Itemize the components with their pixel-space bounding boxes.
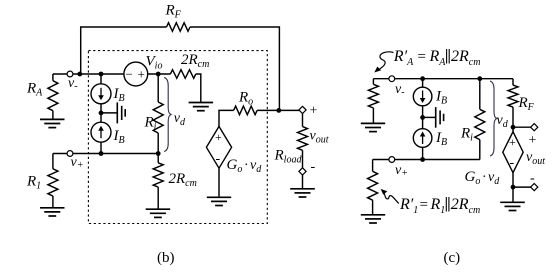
- svg-text:Go: Go: [465, 169, 481, 187]
- terminal vout- (b): [299, 168, 306, 175]
- svg-text:IB: IB: [435, 89, 447, 107]
- junction dot Ri branch (b): [156, 72, 161, 77]
- svg-text:Ro: Ro: [238, 90, 253, 108]
- wire between IB sources (c): [422, 106, 424, 129]
- ground at output (b): [290, 189, 315, 197]
- resistor RA: [48, 81, 58, 111]
- terminal vout+ (b): [299, 106, 306, 113]
- wire R1 to ground: [52, 196, 54, 208]
- svg-text:·: ·: [482, 170, 487, 185]
- terminal vout+ (c): [531, 124, 538, 131]
- svg-text:(c): (c): [444, 250, 461, 266]
- open node v- (b): [67, 71, 73, 77]
- junction dot IB branch (b): [99, 72, 104, 77]
- resistor R-prime-A: [368, 84, 378, 108]
- junction dot output+ (c): [511, 125, 516, 130]
- svg-text:+: +: [215, 130, 222, 144]
- junction dot 2Rcm lower (b): [156, 151, 161, 156]
- svg-text:R′A: R′A: [393, 48, 414, 68]
- wire RF to output node (c): [512, 107, 514, 132]
- svg-text:-: -: [530, 171, 535, 186]
- wire RA to ground: [52, 111, 54, 120]
- junction dot Ri branch (c): [477, 76, 482, 81]
- brace vd (c): [490, 81, 497, 156]
- wire to 2Rcm lower: [157, 154, 159, 163]
- svg-text:+: +: [509, 135, 516, 149]
- svg-text:=: =: [420, 197, 428, 213]
- wire R'A top lead: [372, 79, 374, 85]
- svg-text:IB: IB: [113, 86, 125, 104]
- wire Rload to terminal: [302, 150, 304, 168]
- svg-text:+: +: [529, 133, 537, 148]
- wire to IB upper (c): [422, 79, 424, 88]
- svg-text:vout: vout: [310, 129, 329, 146]
- svg-text:vd: vd: [174, 111, 186, 128]
- resistor R1: [48, 169, 58, 196]
- svg-text:RA: RA: [429, 48, 447, 68]
- terminal vout- (c): [531, 184, 538, 191]
- wire to terminal - (c): [513, 186, 534, 188]
- ground under R-prime-1: [361, 215, 385, 223]
- svg-text:R1: R1: [26, 174, 41, 192]
- svg-text:v+: v+: [395, 163, 408, 179]
- current source IB upper (b): [91, 84, 111, 104]
- svg-text:-: -: [510, 156, 515, 171]
- resistor Rload: [298, 127, 308, 151]
- open node v- (c): [389, 76, 395, 82]
- dependent source Go*vd (b): [206, 126, 231, 168]
- resistor RF (b): [167, 23, 191, 32]
- brace vd (b): [164, 78, 171, 152]
- svg-text:vout: vout: [526, 150, 545, 167]
- svg-text:Rload: Rload: [274, 148, 303, 166]
- svg-text:Ri: Ri: [460, 126, 473, 144]
- svg-text:IB: IB: [435, 130, 447, 148]
- svg-text:-: -: [311, 160, 316, 175]
- arrow from R-prime-1 label to resistor: [384, 193, 399, 204]
- wire to RF (c): [512, 79, 514, 85]
- wire R'1 to ground: [372, 200, 374, 214]
- svg-text:+: +: [138, 67, 145, 82]
- junction dot mid IB (b): [99, 111, 104, 116]
- svg-text:v+: v+: [71, 155, 84, 171]
- wire RA top lead: [52, 74, 54, 81]
- wire Go source to Ro: [219, 110, 234, 126]
- wire IB lower to v+ rail (b): [100, 142, 102, 153]
- svg-text:v-: v-: [395, 82, 405, 98]
- wire Ro to output node: [257, 109, 302, 111]
- junction dot IB branch (c): [420, 76, 425, 81]
- wire to terminal + (c): [513, 126, 534, 128]
- wire Ri to v+ rail (b): [157, 133, 159, 154]
- wire between IB sources (b): [100, 104, 102, 122]
- svg-text:(b): (b): [157, 250, 175, 266]
- svg-text:IB: IB: [113, 128, 125, 146]
- dotted boundary box of op-amp model (b): [88, 51, 267, 224]
- svg-text:Go: Go: [227, 157, 243, 175]
- svg-text:·: ·: [244, 158, 249, 173]
- ground under lower 2Rcm: [146, 209, 171, 217]
- wire R'1 top lead: [372, 160, 374, 172]
- wire R'A to ground: [372, 108, 374, 123]
- resistor Ri (b): [153, 102, 163, 133]
- svg-text:−: −: [126, 67, 133, 82]
- open node v+ (c): [389, 157, 395, 163]
- wire R1 top lead: [52, 154, 54, 169]
- ground under upper 2Rcm: [189, 103, 214, 111]
- junction dot output- (c): [511, 185, 516, 190]
- resistor R-prime-1: [368, 171, 378, 200]
- wire v+ rail (b): [53, 153, 158, 155]
- svg-text:RA: RA: [26, 81, 43, 99]
- current source IB upper (c): [413, 87, 432, 106]
- svg-text:2Rcm: 2Rcm: [451, 196, 480, 216]
- svg-text:vd: vd: [488, 170, 500, 187]
- svg-text:=: =: [418, 49, 426, 65]
- wire IB lower to v+ rail (c): [422, 147, 424, 159]
- junction dot IB lower (c): [420, 157, 425, 162]
- svg-text:R1: R1: [430, 196, 446, 216]
- sideways ground between IB sources (b): [101, 102, 125, 123]
- svg-text:Ri: Ri: [144, 115, 157, 133]
- svg-text:2Rcm: 2Rcm: [181, 52, 209, 70]
- open node v+ (b): [67, 151, 73, 157]
- sideways ground between IB sources (c): [423, 107, 444, 128]
- wire v- rail (c): [373, 78, 513, 80]
- wire feedback top-right: [190, 27, 279, 110]
- svg-text:R′1: R′1: [399, 196, 418, 216]
- wire feedback top-left: [81, 27, 167, 74]
- wire to Rload: [302, 114, 304, 127]
- junction dot output node (b): [276, 108, 281, 113]
- resistor 2Rcm lower (b): [153, 163, 163, 187]
- svg-text:vd: vd: [497, 113, 509, 130]
- wire to Ri (c): [479, 79, 481, 110]
- svg-text:2Rcm: 2Rcm: [169, 171, 197, 189]
- ground under RA: [40, 119, 65, 127]
- wire v+ rail (c): [373, 159, 480, 161]
- wire to IB top source (b): [100, 74, 102, 84]
- junction dot IB lower (b): [99, 151, 104, 156]
- ground under Go source (b): [207, 197, 231, 205]
- svg-text:Vio: Vio: [146, 54, 163, 72]
- wire to Ri (b): [157, 74, 159, 102]
- svg-text:-: -: [216, 152, 221, 167]
- wire Go source to ground (c): [512, 173, 514, 202]
- wire Ri to v+ rail (c): [479, 140, 481, 160]
- ground at output (c): [500, 202, 525, 210]
- dependent source Go*vd (c): [503, 132, 523, 173]
- resistor Ro: [234, 106, 258, 115]
- ground under R1: [40, 208, 65, 216]
- wire Vio to 2Rcm: [148, 73, 171, 75]
- resistor Ri (c): [475, 109, 485, 139]
- svg-text:RF: RF: [165, 3, 182, 21]
- resistor 2Rcm upper (b): [170, 70, 195, 79]
- junction dot mid IB (c): [420, 115, 425, 120]
- wire to output ground (b): [302, 175, 304, 189]
- ground under R-prime-A: [361, 123, 385, 131]
- resistor RF (c): [508, 85, 518, 107]
- svg-text:v-: v-: [68, 76, 78, 92]
- current source IB lower (c): [413, 129, 432, 148]
- svg-text:RF: RF: [518, 95, 535, 113]
- voltage source Vio: [124, 62, 148, 86]
- wire Go source to ground: [218, 168, 220, 197]
- svg-text:2Rcm: 2Rcm: [451, 48, 480, 68]
- arrow from R-prime-A label to resistor: [379, 52, 394, 70]
- wire v- node (b): [53, 73, 124, 75]
- wire 2Rcm lower to ground: [157, 187, 159, 209]
- svg-text:vd: vd: [250, 158, 262, 175]
- junction dot at RF left leg: [77, 72, 82, 77]
- current source IB lower (b): [91, 122, 111, 142]
- svg-text:+: +: [310, 104, 318, 119]
- wire 2Rcm upper to ground: [196, 74, 201, 102]
